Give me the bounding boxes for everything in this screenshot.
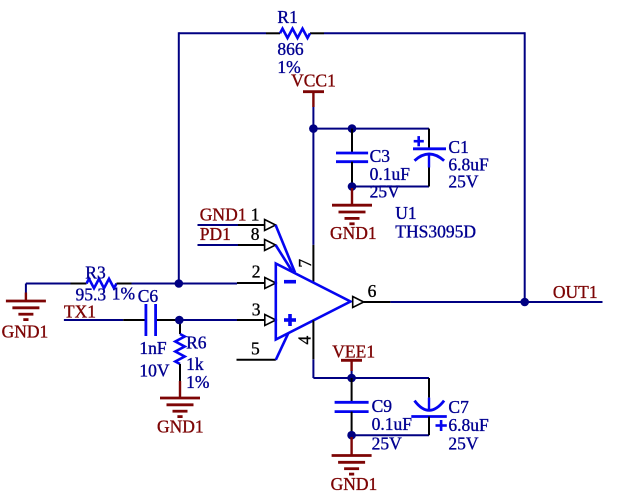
svg-text:U1: U1 [395,203,416,223]
svg-text:7: 7 [295,259,315,268]
svg-text:5: 5 [251,339,260,359]
svg-text:R3: R3 [85,262,106,282]
svg-text:GND1: GND1 [200,205,247,225]
svg-text:1%: 1% [112,283,135,303]
svg-text:3: 3 [252,299,261,319]
svg-text:6: 6 [368,281,377,301]
svg-text:R6: R6 [186,333,207,353]
svg-text:866: 866 [277,39,304,59]
svg-text:VEE1: VEE1 [332,342,375,362]
svg-text:1%: 1% [186,372,209,392]
svg-text:C7: C7 [448,397,469,417]
svg-text:1: 1 [251,204,260,224]
svg-text:OUT1: OUT1 [553,282,598,302]
svg-text:C6: C6 [138,286,159,306]
svg-text:GND1: GND1 [2,322,49,342]
svg-text:C9: C9 [372,396,393,416]
svg-text:GND1: GND1 [157,417,204,437]
svg-text:4: 4 [295,336,315,345]
svg-text:THS3095D: THS3095D [395,222,476,242]
svg-text:25V: 25V [372,434,403,454]
svg-text:C3: C3 [370,146,391,166]
svg-text:1k: 1k [186,354,204,374]
svg-text:GND1: GND1 [331,474,378,494]
svg-text:TX1: TX1 [64,302,96,322]
svg-text:R1: R1 [277,7,297,27]
svg-text:25V: 25V [448,434,479,454]
svg-text:25V: 25V [448,172,479,192]
svg-text:1nF: 1nF [139,338,167,358]
svg-text:6.8uF: 6.8uF [448,415,489,435]
svg-text:25V: 25V [370,182,401,202]
svg-text:2: 2 [252,262,261,282]
svg-text:GND1: GND1 [330,223,377,243]
svg-text:0.1uF: 0.1uF [372,414,413,434]
svg-text:PD1: PD1 [200,224,231,244]
svg-text:VCC1: VCC1 [291,71,336,91]
svg-text:8: 8 [251,224,260,244]
svg-text:10V: 10V [139,361,170,381]
